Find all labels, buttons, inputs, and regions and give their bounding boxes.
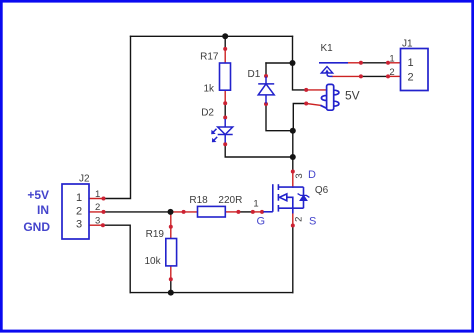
node bus / D1 bottom: [290, 128, 296, 134]
resistor R18: [198, 206, 226, 217]
svg-text:1: 1: [76, 192, 82, 204]
svg-text:2: 2: [389, 67, 394, 78]
svg-text:1k: 1k: [203, 84, 215, 95]
wire bottom bus: [130, 292, 293, 294]
wire node to drain: [292, 131, 294, 172]
svg-text:2: 2: [407, 72, 413, 84]
LED D2 arrowheads: [211, 130, 216, 143]
pin K1 coil top: [306, 89, 326, 91]
svg-text:220R: 220R: [218, 195, 242, 206]
svg-text:J1: J1: [402, 39, 413, 50]
svg-text:K1: K1: [321, 43, 334, 54]
svg-text:1: 1: [253, 199, 258, 210]
pin K1 arm: [333, 75, 361, 77]
pin R17-1: [224, 49, 226, 63]
relay K1 coil: [321, 84, 339, 110]
relay K1 arm tail: [327, 72, 332, 76]
svg-text:10k: 10k: [145, 256, 162, 267]
wire coil bottom link: [293, 104, 306, 131]
wire R17 to D2: [224, 103, 226, 117]
relay K1 arm arrow: [321, 67, 332, 74]
diode D1: [258, 77, 274, 104]
LED D2: [212, 119, 233, 143]
svg-text:2: 2: [293, 217, 304, 222]
wire D1 top vertical: [265, 63, 267, 76]
svg-text:5V: 5V: [345, 89, 360, 103]
resistor R19: [166, 239, 177, 266]
pin Q6 drain stub: [292, 172, 294, 188]
pin Q6 source stub: [292, 214, 294, 226]
pin stub J2-1: [89, 198, 104, 200]
wire R19 bottom stub: [170, 279, 172, 292]
pin R19-1: [170, 214, 172, 239]
wire left bus: [104, 36, 131, 198]
wire top bus: [131, 35, 293, 37]
wire R18 to gate pin: [238, 211, 252, 213]
pin K1 contact: [347, 62, 361, 64]
svg-text:1: 1: [95, 189, 100, 200]
svg-text:S: S: [309, 216, 316, 228]
mosfet Q6: [263, 184, 303, 213]
svg-text:J2: J2: [79, 174, 90, 185]
svg-text:R17: R17: [200, 52, 219, 63]
svg-text:1: 1: [389, 53, 394, 64]
resistor R17: [220, 63, 231, 90]
wire GND from J2 pin3: [103, 225, 130, 292]
connector J2: [62, 184, 89, 239]
svg-text:3: 3: [95, 215, 100, 226]
wire D2 bottom to drain node: [225, 144, 293, 157]
svg-text:D2: D2: [201, 107, 214, 118]
svg-text:R19: R19: [146, 229, 165, 240]
node bus / D1 top: [290, 60, 296, 66]
node bottom bus / R19: [168, 290, 174, 296]
svg-text:D1: D1: [248, 69, 261, 80]
pin R17-2: [224, 90, 226, 103]
svg-text:GND: GND: [23, 220, 50, 234]
wire right bus to coil top: [293, 36, 307, 90]
pin K1 coil bottom: [306, 104, 320, 106]
node drain / D2: [290, 154, 296, 160]
red connection dots: [101, 47, 390, 281]
wire IN from J2 pin2: [104, 211, 171, 213]
svg-text:2: 2: [95, 202, 100, 213]
pin R19-2: [170, 266, 172, 279]
pin R18-2: [225, 211, 238, 213]
wire R17 top stub: [224, 36, 226, 49]
pin stub J2-2: [89, 211, 104, 213]
svg-text:Q6: Q6: [315, 185, 329, 196]
wire D1 bottom to node: [266, 104, 293, 131]
wire source to bottom bus: [292, 226, 294, 293]
svg-text:1: 1: [407, 57, 413, 69]
junction dots: [168, 33, 296, 295]
svg-text:G: G: [257, 216, 266, 228]
pin J1-1: [388, 62, 401, 64]
connector J1: [401, 49, 429, 91]
svg-text:IN: IN: [37, 203, 49, 217]
wire D1 top link: [266, 62, 293, 64]
node top bus / R17: [222, 33, 228, 39]
wire relay arm to J1 pin2: [361, 75, 388, 77]
pin Q6 gate stub: [253, 211, 264, 213]
relay K1 contact line: [319, 62, 348, 64]
svg-text:3: 3: [294, 173, 305, 178]
pin stub J2-3: [89, 224, 103, 226]
svg-text:2: 2: [76, 205, 82, 217]
svg-text:3: 3: [76, 218, 82, 230]
svg-text:+5V: +5V: [27, 188, 49, 202]
svg-text:D: D: [308, 169, 316, 181]
pin R18-1: [171, 211, 197, 213]
mosfet Q6 body diode: [298, 194, 310, 201]
wire relay contact to J1 pin1: [361, 62, 388, 64]
pin J1-2: [388, 75, 401, 77]
svg-text:R18: R18: [189, 195, 208, 206]
node IN / R18 / R19: [168, 209, 174, 215]
